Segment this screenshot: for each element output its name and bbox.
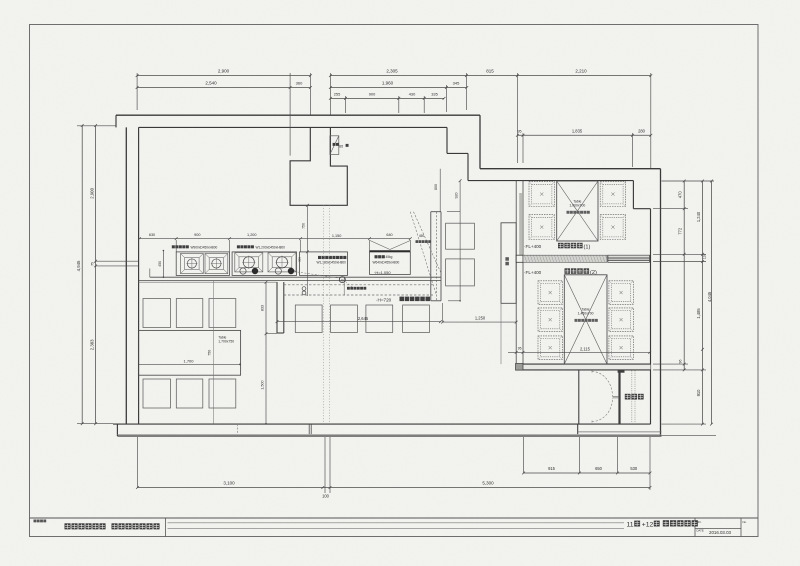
svg-text:4,045: 4,045 bbox=[707, 291, 712, 302]
dim right: 1,240 / 118 / 1,485 / 910 bbox=[702, 181, 704, 424]
divider hatched band bbox=[523, 255, 607, 262]
closet west wall line bbox=[578, 370, 580, 424]
svg-text:11: 11 bbox=[627, 522, 634, 529]
svg-text:2,115: 2,115 bbox=[580, 347, 591, 352]
svg-text:815: 815 bbox=[486, 69, 494, 74]
dim row1 right: 2,305 / 815 / 2,210 bbox=[330, 75, 650, 77]
room2 cushion r3c2 bbox=[609, 336, 633, 360]
svg-text:2,645: 2,645 bbox=[358, 316, 369, 321]
svg-text:1,700: 1,700 bbox=[183, 359, 194, 364]
svg-text:NO.: NO. bbox=[697, 520, 702, 524]
partition hatch strip bbox=[519, 193, 523, 256]
room2 cushion r2c1 bbox=[538, 308, 562, 332]
dining chair a1 bbox=[143, 299, 171, 328]
svg-text:(1): (1) bbox=[584, 245, 591, 251]
dim right: 470 / 772 / 96 bbox=[683, 181, 685, 370]
room1 cushion r1c1 bbox=[529, 182, 555, 207]
wall: bottom outer double line bbox=[117, 433, 661, 435]
room1 cushion r2c2 bbox=[600, 215, 626, 240]
wall: west inner face bbox=[138, 127, 140, 423]
sink unit 2 label bbox=[237, 245, 240, 248]
room1 cushion r1c2 bbox=[600, 182, 626, 207]
counter column right bbox=[430, 212, 432, 301]
room1 cushion r2c1 bbox=[529, 215, 555, 240]
leader diagonals bbox=[410, 212, 436, 294]
dim row3: 255 / 900 / 430 / 335 bbox=[330, 97, 444, 99]
dining chair b2 bbox=[176, 379, 203, 408]
sink basin 3 bbox=[235, 253, 263, 272]
svg-text:1,250: 1,250 bbox=[475, 316, 486, 321]
svg-text:772: 772 bbox=[678, 227, 683, 235]
dim 1,250 bbox=[443, 321, 517, 323]
dim 2,645 bbox=[277, 321, 441, 323]
svg-text:W1,200xD450xH800: W1,200xD450xH800 bbox=[256, 245, 286, 249]
ice maker label bbox=[375, 255, 378, 258]
dim right: 4,045 bbox=[711, 181, 713, 424]
svg-text:360: 360 bbox=[296, 81, 303, 86]
dim extension lines top bbox=[136, 73, 138, 110]
closet label yofuku-ire bbox=[625, 394, 631, 400]
sink unit 1 label bbox=[172, 245, 175, 248]
svg-text:1,835: 1,835 bbox=[572, 128, 583, 133]
svg-text:100: 100 bbox=[322, 494, 330, 499]
counter chair c3 bbox=[366, 305, 393, 333]
cold table label bbox=[318, 256, 321, 259]
svg-text:1,200: 1,200 bbox=[247, 233, 257, 237]
sink basin 1 bbox=[181, 254, 204, 274]
svg-text:640: 640 bbox=[386, 233, 392, 237]
svg-text:95: 95 bbox=[517, 129, 521, 133]
bottom wall door box bbox=[237, 424, 239, 434]
svg-text:·H=1,050: ·H=1,050 bbox=[374, 270, 391, 275]
wall: jog inner steps bbox=[446, 127, 448, 153]
svg-text:96: 96 bbox=[679, 360, 683, 364]
svg-text:W640xD455xH800: W640xD455xH800 bbox=[373, 260, 400, 264]
svg-text:3,100: 3,100 bbox=[223, 480, 235, 485]
room2 cushion r2c2 bbox=[609, 308, 633, 332]
wall: top-left end cap bbox=[115, 115, 117, 127]
left extension stubs bbox=[77, 125, 116, 127]
gas drop line bbox=[343, 277, 345, 296]
svg-text:118: 118 bbox=[703, 254, 707, 260]
counter dashed edges H=720 bbox=[284, 284, 433, 286]
room1 table kotatsu label bbox=[567, 211, 570, 214]
dim bottom: 3,100 / 100 / 5,300 bbox=[138, 487, 651, 489]
svg-text:280: 280 bbox=[638, 128, 646, 133]
svg-text:345: 345 bbox=[453, 81, 460, 86]
counter chair c4 bbox=[403, 305, 430, 333]
storage lower side line bbox=[500, 303, 502, 364]
svg-text:470: 470 bbox=[678, 191, 683, 199]
room2 cushion r3c1 bbox=[538, 336, 562, 360]
ice maker bbox=[370, 252, 411, 275]
svg-text:1,450x700: 1,450x700 bbox=[578, 312, 594, 316]
svg-text:2,540: 2,540 bbox=[205, 81, 217, 86]
dining table 1,700x750 bbox=[138, 330, 240, 375]
gas outlet label 2-kuchi bbox=[347, 287, 350, 290]
svg-text:45kg: 45kg bbox=[386, 255, 393, 259]
gas leader and symbol G bbox=[294, 272, 340, 279]
sink unit 1 (W900) bbox=[176, 252, 229, 276]
dim left: 2,900 / 75 / 2,383 bbox=[95, 126, 97, 424]
svg-text:750: 750 bbox=[208, 350, 212, 356]
counter chair c5 bbox=[446, 223, 475, 249]
project name text bbox=[65, 523, 71, 529]
tatami partition west faces bbox=[515, 181, 517, 370]
wall: tatami room1 top inner face bbox=[468, 180, 633, 182]
svg-text:300: 300 bbox=[298, 257, 302, 262]
divider louver band bbox=[608, 255, 650, 262]
svg-text:833: 833 bbox=[260, 305, 264, 311]
svg-text:1,150: 1,150 bbox=[332, 234, 342, 238]
wall: top outer face bbox=[116, 114, 480, 116]
partition bottom post bbox=[516, 364, 524, 371]
svg-text:1,000x700: 1,000x700 bbox=[569, 204, 585, 208]
dining chair b3 bbox=[209, 379, 236, 408]
wall: room1 NE notch inner bbox=[632, 181, 634, 209]
svg-text:No.: No. bbox=[743, 520, 748, 524]
svg-text:2,383: 2,383 bbox=[90, 339, 95, 350]
room2 table kotatsu label bbox=[575, 319, 578, 322]
svg-text:DATE: DATE bbox=[697, 529, 704, 533]
title block band bbox=[30, 517, 759, 519]
svg-text:·FL+400: ·FL+400 bbox=[524, 244, 542, 249]
dim 2,115 and 95 bbox=[508, 351, 650, 353]
small gas cocks bbox=[302, 287, 306, 291]
dim row2 right: 1,960 / 345 bbox=[330, 87, 466, 89]
svg-text:650: 650 bbox=[595, 466, 603, 471]
room2 name kogari-doko(2) bbox=[565, 268, 571, 274]
svg-text:B5: B5 bbox=[339, 144, 343, 148]
storage label vertical bbox=[505, 257, 509, 261]
svg-text:1,240: 1,240 bbox=[696, 211, 701, 222]
svg-text:W1,180xD450xH800: W1,180xD450xH800 bbox=[317, 260, 347, 264]
dim left: 4,945 bbox=[81, 126, 83, 424]
svg-text:2,210: 2,210 bbox=[575, 69, 587, 74]
dining chair a2 bbox=[176, 299, 203, 328]
svg-text:1,500: 1,500 bbox=[260, 380, 264, 389]
kitchen/dining boundary line bbox=[139, 281, 277, 283]
room1 table 1,000x700 bbox=[557, 181, 598, 241]
wall: east outer face bbox=[660, 169, 662, 436]
svg-text:G: G bbox=[341, 279, 344, 283]
right extension stubs bbox=[662, 180, 715, 182]
dim 833 / 1,500 vertical bbox=[265, 282, 267, 424]
wall: top inner face bbox=[139, 126, 447, 128]
dim 920 vertical bbox=[459, 181, 461, 301]
svg-text:335: 335 bbox=[431, 92, 438, 97]
svg-text:900: 900 bbox=[369, 92, 376, 97]
counter chair c2 bbox=[331, 305, 358, 333]
dining chair a3 bbox=[209, 299, 236, 328]
sink unit 2 (W1,200) bbox=[232, 252, 296, 276]
svg-text:920: 920 bbox=[454, 193, 458, 199]
hidden duct line pair bbox=[322, 205, 324, 423]
dim row2: 2,540 / 360 bbox=[137, 87, 310, 89]
dim 800 vertical bbox=[439, 169, 441, 212]
tatami bottom band bbox=[516, 364, 651, 370]
svg-text:800: 800 bbox=[434, 184, 438, 190]
svg-text:1,700x750: 1,700x750 bbox=[218, 339, 234, 343]
storage (mono-ire) box bbox=[501, 223, 516, 303]
room1 name kogari-seki(1) bbox=[558, 243, 564, 249]
divider post upper bbox=[516, 255, 523, 262]
wall: closet thin bottom line bbox=[577, 424, 579, 434]
counter chair c1 bbox=[295, 305, 322, 333]
closet door swing arcs bbox=[592, 372, 613, 397]
svg-text:·FL+400: ·FL+400 bbox=[524, 270, 542, 275]
room2 table 1,450x700 bbox=[564, 275, 607, 364]
svg-text:95: 95 bbox=[518, 347, 522, 351]
svg-text:W900xD450xH800: W900xD450xH800 bbox=[191, 245, 218, 249]
room2 cushion r1c2 bbox=[609, 281, 633, 305]
dim row1 left: 2,900 bbox=[137, 75, 310, 77]
svg-text:450: 450 bbox=[158, 261, 162, 267]
svg-text:1,485: 1,485 bbox=[696, 308, 701, 319]
dining chair b1 bbox=[143, 379, 171, 408]
counter chair c6 bbox=[446, 259, 475, 286]
ice maker door V mark bbox=[370, 241, 390, 250]
svg-text:2016.03.03: 2016.03.03 bbox=[709, 530, 732, 535]
dim 1,700 bbox=[138, 363, 240, 365]
svg-text:910: 910 bbox=[696, 389, 701, 397]
svg-text:·H=720: ·H=720 bbox=[376, 297, 392, 302]
svg-text:430: 430 bbox=[409, 92, 416, 97]
svg-text:750: 750 bbox=[302, 223, 306, 229]
svg-text:+12: +12 bbox=[642, 522, 654, 529]
wall: bottom-left end cap bbox=[116, 424, 118, 436]
sink basin 2 bbox=[205, 254, 228, 274]
svg-text:75: 75 bbox=[91, 262, 95, 266]
wall: upper-right outer face bbox=[480, 168, 661, 170]
svg-text:5,300: 5,300 bbox=[482, 480, 494, 485]
shaft / duct enclosure bbox=[290, 127, 347, 205]
closet door head stub bbox=[618, 370, 625, 373]
svg-text:2,900: 2,900 bbox=[90, 187, 95, 198]
svg-text:255: 255 bbox=[334, 92, 341, 97]
wall: west outer face bbox=[125, 127, 127, 424]
dim row 95 / 1,835 / 280 bbox=[517, 134, 650, 136]
wall: east inner face bbox=[650, 209, 652, 424]
svg-text:2,305: 2,305 bbox=[386, 69, 398, 74]
svg-text:4,945: 4,945 bbox=[76, 260, 81, 271]
svg-text:900: 900 bbox=[194, 233, 200, 237]
room2 cushion r1c1 bbox=[538, 281, 562, 305]
low wall west of counter bbox=[276, 282, 278, 333]
cold table bbox=[300, 252, 348, 276]
svg-text:2,900: 2,900 bbox=[218, 69, 230, 74]
kitchen counter front edges bbox=[150, 276, 441, 278]
closet hanger pipe strip bbox=[631, 371, 633, 425]
dim 450 sink depth bbox=[162, 251, 164, 278]
closet door divider bbox=[618, 370, 620, 424]
label kouji-meisho (project) bbox=[34, 520, 37, 523]
dim 750 shaft-counter bbox=[306, 205, 308, 296]
svg-text:530: 530 bbox=[630, 466, 638, 471]
sink basin 4 bbox=[268, 253, 296, 272]
kitchen dim row 630/900/1,200/1,150/640 bbox=[140, 238, 411, 240]
svg-text:915: 915 bbox=[548, 466, 556, 471]
dim bottom: 915 / 650 / 530 bbox=[524, 472, 651, 474]
faucet circles sink2 bbox=[240, 268, 246, 274]
svg-text:450: 450 bbox=[419, 234, 425, 238]
wall: jog outer vertical bbox=[479, 115, 481, 169]
gas meter box GAB5 bbox=[330, 136, 339, 155]
svg-text:630: 630 bbox=[149, 233, 155, 237]
svg-text:1,960: 1,960 bbox=[382, 81, 394, 86]
wall: bottom inner face bbox=[113, 423, 651, 425]
